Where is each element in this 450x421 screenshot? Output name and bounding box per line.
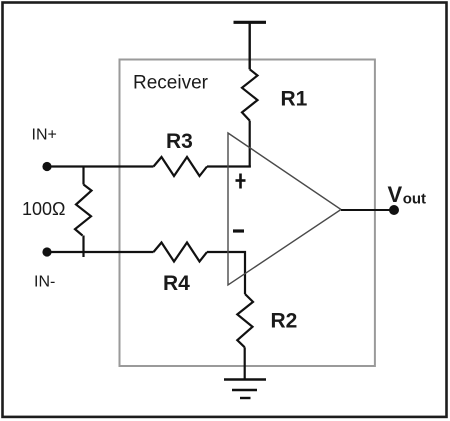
resistor R1	[242, 69, 258, 120]
svg-text:IN-: IN-	[34, 274, 55, 291]
op-amp U1	[228, 133, 341, 285]
svg-text:IN+: IN+	[32, 127, 57, 144]
wire R3 to op-amp + input	[207, 165, 251, 167]
svg-text:Receiver: Receiver	[133, 73, 209, 94]
op-amp minus marking	[233, 229, 244, 232]
svg-text:100Ω: 100Ω	[22, 199, 66, 219]
resistor R2	[237, 294, 253, 347]
svg-text:R2: R2	[271, 310, 298, 333]
wire output	[341, 209, 394, 211]
power rail V+	[234, 22, 267, 69]
svg-text:R1: R1	[281, 88, 308, 111]
node IN+	[42, 162, 51, 171]
op-amp plus marking	[236, 174, 246, 189]
wire R4 to op-amp - input	[207, 252, 245, 294]
wire R2 to ground	[244, 347, 246, 379]
svg-text:R4: R4	[163, 272, 190, 295]
resistor R3	[154, 157, 208, 176]
node IN-	[42, 247, 51, 256]
wire IN- to R4	[47, 251, 154, 253]
svg-text:R3: R3	[166, 130, 193, 153]
wire IN+ to R3	[47, 165, 154, 167]
receiver box	[120, 60, 375, 367]
resistor R4	[154, 243, 208, 262]
wire R1 to noninverting node	[249, 121, 251, 168]
ground	[224, 380, 266, 399]
node Vout	[389, 205, 399, 215]
resistor 100 ohm	[82, 167, 84, 185]
